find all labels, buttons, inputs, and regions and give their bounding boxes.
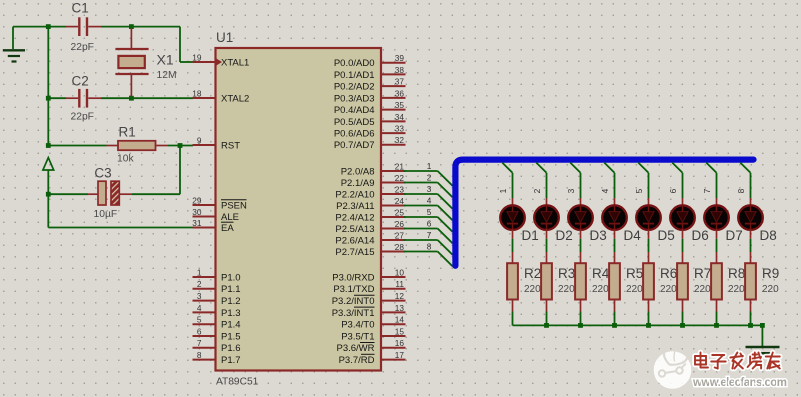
wire ground bus [513, 324, 763, 326]
svg-text:P0.7/AD7: P0.7/AD7 [334, 140, 375, 151]
svg-text:4: 4 [197, 303, 202, 313]
svg-text:P0.0/AD0: P0.0/AD0 [334, 58, 375, 69]
svg-text:19: 19 [192, 52, 202, 62]
svg-text:2: 2 [532, 188, 542, 193]
pin 9 RST [193, 135, 241, 151]
svg-text:10: 10 [395, 267, 405, 277]
svg-text:37: 37 [395, 77, 405, 87]
label R2 [524, 266, 541, 281]
svg-text:P3.2/INT0: P3.2/INT0 [332, 296, 375, 307]
svg-text:31: 31 [192, 218, 202, 228]
pin 34 P0.5/AD5 [334, 112, 406, 128]
svg-text:1: 1 [197, 267, 202, 277]
pin 10 P3.0/RXD [332, 267, 405, 283]
svg-text:XTAL2: XTAL2 [221, 93, 249, 104]
svg-text:P1.4: P1.4 [221, 320, 241, 331]
net label 4 (vertical) [600, 188, 610, 193]
svg-text:P2.1/A9: P2.1/A9 [341, 178, 375, 189]
wire D8-R9 [750, 239, 752, 252]
wire XTAL1 net [101, 27, 193, 62]
net label 2 (vertical) [532, 188, 542, 193]
wire bus to D5 [638, 163, 648, 198]
svg-text:1: 1 [498, 188, 508, 193]
value 220 R5 [626, 284, 643, 295]
net label 7 [427, 230, 432, 240]
svg-text:AT89C51: AT89C51 [216, 377, 259, 388]
capacitor C2 [66, 89, 101, 108]
wire C3-RST [132, 146, 180, 195]
svg-text:D8: D8 [760, 228, 777, 243]
junction RST riser [178, 143, 183, 148]
pin 11 P3.1/TXD [333, 279, 405, 295]
net label 5 (vertical) [634, 188, 644, 193]
pin 8 P1.7 [193, 350, 241, 366]
svg-text:12: 12 [395, 291, 405, 301]
value 12M [157, 70, 177, 81]
pin 28 P2.7/A15 [335, 242, 405, 258]
junction R9 gnd [748, 323, 753, 328]
svg-text:P3.5/T1: P3.5/T1 [341, 331, 374, 342]
svg-text:P2.5/A13: P2.5/A13 [335, 224, 374, 235]
wire R8 to ground bus [716, 312, 718, 326]
pin 13 P3.3/INT1 [332, 303, 406, 319]
svg-text:P3.0/RXD: P3.0/RXD [332, 272, 374, 283]
svg-text:D2: D2 [556, 228, 573, 243]
svg-text:R9: R9 [762, 266, 779, 281]
pin 16 P3.6/WR [336, 338, 405, 354]
pin marker XTAL1 chevron [217, 59, 223, 66]
svg-text:R2: R2 [524, 266, 541, 281]
svg-text:220: 220 [728, 284, 745, 295]
label R8 [728, 266, 745, 281]
net label 1 (vertical) [498, 188, 508, 193]
svg-text:25: 25 [395, 207, 405, 217]
label D5 [658, 228, 675, 243]
label D4 [624, 228, 642, 243]
junction R7 gnd [680, 323, 685, 328]
label C3 [94, 166, 111, 181]
svg-text:30: 30 [192, 207, 202, 217]
value 220 R6 [660, 284, 677, 295]
bus (blue) [455, 160, 753, 266]
svg-text:P1.0: P1.0 [221, 272, 241, 283]
svg-text:C2: C2 [72, 74, 89, 89]
LED D7 [704, 198, 729, 239]
svg-text:D5: D5 [658, 228, 675, 243]
label R1 [119, 125, 136, 140]
pin 32 P0.7/AD7 [334, 135, 406, 151]
net label 8 [427, 242, 432, 252]
svg-text:P2.6/A14: P2.6/A14 [335, 235, 374, 246]
wire P2.3 to bus [404, 206, 453, 221]
svg-text:10µF: 10µF [94, 209, 118, 220]
svg-text:P2.7/A15: P2.7/A15 [335, 247, 374, 258]
svg-text:2: 2 [427, 173, 432, 183]
svg-text:P0.3/AD3: P0.3/AD3 [334, 93, 375, 104]
resistor R5 [609, 252, 620, 312]
net label 5 [427, 207, 432, 217]
svg-text:U1: U1 [216, 30, 233, 45]
wire P2.4 to bus [404, 217, 453, 232]
label U1 [216, 30, 233, 45]
svg-text:D7: D7 [726, 228, 743, 243]
svg-text:C1: C1 [72, 1, 89, 16]
wire R5 to ground bus [614, 312, 616, 326]
junction R5 gnd [612, 323, 617, 328]
svg-text:5: 5 [197, 315, 202, 325]
pin 17 P3.7/RD [339, 350, 406, 366]
LED D8 [738, 198, 763, 239]
wire bus to D7 [706, 163, 716, 198]
label D2 [556, 228, 573, 243]
svg-text:1: 1 [427, 161, 432, 171]
svg-text:ALE: ALE [221, 212, 239, 223]
svg-text:P3.3/INT1: P3.3/INT1 [332, 308, 375, 319]
svg-text:P3.1/TXD: P3.1/TXD [333, 284, 374, 295]
watermark text elecfans CJK [695, 353, 780, 369]
svg-text:15: 15 [395, 326, 405, 336]
svg-text:39: 39 [395, 53, 405, 63]
pin 7 P1.6 [193, 338, 241, 354]
wire R6 to ground bus [648, 312, 650, 326]
svg-text:220: 220 [762, 284, 779, 295]
wire R4 to ground bus [580, 312, 582, 326]
svg-text:EA: EA [221, 223, 234, 234]
net label 3 [427, 184, 432, 194]
svg-text:X1: X1 [157, 52, 174, 68]
pin 24 P2.3/A11 [336, 196, 405, 212]
svg-text:9: 9 [197, 135, 202, 145]
label R4 [592, 266, 610, 281]
svg-text:C3: C3 [94, 166, 111, 181]
wire D7-R8 [716, 239, 718, 252]
label AT89C51 [216, 377, 259, 388]
junction X1 top [129, 24, 134, 29]
svg-text:P0.5/AD5: P0.5/AD5 [334, 117, 375, 128]
svg-text:6: 6 [197, 326, 202, 336]
svg-text:4: 4 [600, 188, 610, 193]
svg-text:27: 27 [395, 230, 405, 240]
value 22pF C2 [71, 112, 94, 123]
svg-text:P1.6: P1.6 [221, 343, 241, 354]
svg-text:23: 23 [395, 184, 405, 194]
svg-text:2: 2 [197, 279, 202, 289]
label D1 [522, 228, 539, 243]
svg-text:R1: R1 [119, 125, 136, 140]
value 220 R9 [762, 284, 779, 295]
svg-text:26: 26 [395, 219, 405, 229]
wire bus to D6 [672, 163, 682, 198]
svg-text:12M: 12M [157, 70, 177, 81]
crystal X1 [115, 28, 148, 97]
wire RST net [168, 145, 193, 147]
pin 4 P1.3 [193, 303, 241, 319]
svg-text:35: 35 [395, 100, 405, 110]
svg-text:34: 34 [395, 112, 405, 122]
junction GND-R1 [46, 143, 51, 148]
svg-text:14: 14 [395, 315, 405, 325]
resistor R8 [711, 252, 722, 312]
wire GND rail [13, 27, 107, 146]
svg-text:P3.4/T0: P3.4/T0 [341, 320, 374, 331]
wire D4-R5 [614, 239, 616, 252]
svg-text:32: 32 [395, 135, 405, 145]
svg-text:6: 6 [427, 219, 432, 229]
resistor R7 [677, 252, 688, 312]
ground (right) [746, 347, 780, 353]
pin 36 P0.3/AD3 [334, 88, 406, 104]
wire D2-R3 [546, 239, 548, 252]
pin 19 XTAL1 [192, 52, 249, 68]
svg-text:3: 3 [427, 184, 432, 194]
wire D6-R7 [682, 239, 684, 252]
pin 3 P1.2 [193, 291, 241, 307]
watermark url [692, 377, 787, 389]
label R3 [558, 266, 575, 281]
svg-text:D1: D1 [522, 228, 539, 243]
svg-text:38: 38 [395, 65, 405, 75]
svg-text:www.elecfans.com: www.elecfans.com [692, 377, 787, 389]
pin 35 P0.4/AD4 [334, 100, 406, 116]
value 220 R8 [728, 284, 745, 295]
junction R4 gnd [578, 323, 583, 328]
net label 1 [427, 161, 432, 171]
wire D1-R2 [512, 239, 514, 252]
svg-text:22pF: 22pF [71, 112, 94, 123]
svg-text:P1.2: P1.2 [221, 296, 241, 307]
value 220 R3 [558, 284, 575, 295]
pin 30 ALE [192, 207, 239, 223]
pin 31 EA [192, 218, 234, 234]
wire to ground [761, 325, 763, 346]
value 10k [117, 154, 134, 165]
svg-text:P3.7/RD: P3.7/RD [339, 355, 375, 366]
pin 21 P2.0/A8 [341, 161, 406, 177]
pin 37 P0.2/AD2 [334, 77, 406, 93]
svg-text:8: 8 [736, 188, 746, 193]
wire P2.2 to bus [404, 194, 453, 209]
LED D3 [568, 198, 593, 239]
pin 23 P2.2/A10 [335, 184, 405, 200]
svg-text:17: 17 [395, 350, 405, 360]
pin 15 P3.5/T1 [341, 326, 405, 342]
watermark logo [654, 344, 692, 389]
label D8 [760, 228, 777, 243]
svg-text:18: 18 [192, 88, 202, 98]
value 220 R2 [524, 284, 541, 295]
wire R7 to ground bus [682, 312, 684, 326]
resistor R6 [643, 252, 654, 312]
svg-text:3: 3 [566, 188, 576, 193]
pin 27 P2.6/A14 [335, 230, 405, 246]
svg-text:220: 220 [558, 284, 575, 295]
svg-text:22: 22 [395, 173, 405, 183]
svg-text:XTAL1: XTAL1 [221, 57, 249, 68]
pin 18 XTAL2 [192, 88, 249, 104]
svg-text:33: 33 [395, 123, 405, 133]
wire bus to D1 [502, 163, 512, 198]
label X1 [157, 52, 174, 68]
svg-text:3: 3 [197, 291, 202, 301]
svg-text:5: 5 [427, 207, 432, 217]
resistor R1 [107, 141, 169, 150]
resistor R4 [575, 252, 586, 312]
svg-text:22pF: 22pF [71, 42, 94, 53]
svg-text:P2.3/A11: P2.3/A11 [336, 201, 374, 212]
capacitor C3 [48, 181, 132, 205]
svg-text:8: 8 [197, 350, 202, 360]
svg-text:R7: R7 [694, 266, 711, 281]
label R7 [694, 266, 711, 281]
wire R9 to ground bus [750, 312, 752, 326]
svg-text:R4: R4 [592, 266, 610, 281]
svg-text:8: 8 [427, 242, 432, 252]
svg-text:P1.3: P1.3 [221, 308, 241, 319]
ground [3, 27, 25, 62]
label D6 [692, 228, 709, 243]
junction gnd corner [760, 323, 765, 328]
net label 4 [427, 196, 432, 206]
svg-text:7: 7 [427, 230, 432, 240]
svg-text:P1.7: P1.7 [221, 355, 241, 366]
svg-text:P0.2/AD2: P0.2/AD2 [334, 82, 375, 93]
net label 7 (vertical) [702, 188, 712, 193]
wire P2.6 to bus [404, 240, 453, 255]
label R6 [660, 266, 677, 281]
capacitor C1 [66, 17, 101, 36]
pin 2 P1.1 [193, 279, 241, 295]
label R9 [762, 266, 779, 281]
net label 6 [427, 219, 432, 229]
junction GND-C1 [46, 24, 51, 29]
svg-text:P2.2/A10: P2.2/A10 [335, 189, 374, 200]
svg-text:D3: D3 [590, 228, 607, 243]
value 22pF C1 [71, 42, 94, 53]
svg-text:P0.4/AD4: P0.4/AD4 [334, 105, 375, 116]
pin 26 P2.5/A13 [335, 219, 405, 235]
wire P2.1 to bus [404, 183, 453, 198]
wire bus to D3 [570, 163, 580, 198]
svg-text:D4: D4 [624, 228, 642, 243]
svg-text:P2.4/A12: P2.4/A12 [335, 212, 374, 223]
wire XTAL2 net [101, 97, 193, 99]
label R5 [626, 266, 643, 281]
power VCC arrow [43, 158, 54, 228]
wire P2.0 to bus [404, 171, 453, 186]
svg-text:R5: R5 [626, 266, 643, 281]
svg-text:220: 220 [524, 284, 541, 295]
svg-text:P0.1/AD1: P0.1/AD1 [334, 70, 375, 81]
svg-text:10k: 10k [117, 154, 134, 165]
svg-text:P1.1: P1.1 [221, 284, 241, 295]
svg-text:28: 28 [395, 242, 405, 252]
pin 29 PSEN [192, 195, 247, 211]
wire D3-R4 [580, 239, 582, 252]
svg-text:24: 24 [395, 196, 405, 206]
junction VCC-C3 [46, 192, 51, 197]
op-chip U1 body AT89C51 [216, 48, 382, 371]
resistor R3 [541, 252, 552, 312]
value 220 R7 [694, 284, 711, 295]
svg-text:7: 7 [702, 188, 712, 193]
wire D5-R6 [648, 239, 650, 252]
pin 12 P3.2/INT0 [332, 291, 406, 307]
LED D1 [500, 198, 525, 239]
LED D5 [636, 198, 661, 239]
resistor R9 [745, 252, 756, 312]
wire bus to D8 [740, 163, 750, 198]
svg-text:R8: R8 [728, 266, 745, 281]
value 10uF [94, 209, 118, 220]
label C2 [72, 74, 89, 89]
pin 14 P3.4/T0 [341, 315, 405, 331]
pin 22 P2.1/A9 [341, 173, 406, 189]
resistor R2 [507, 252, 518, 312]
pin 33 P0.6/AD6 [334, 123, 406, 139]
wire R3 to ground bus [546, 312, 548, 326]
junction GND-C2 [46, 96, 51, 101]
pin 1 P1.0 [193, 267, 241, 283]
svg-text:4: 4 [427, 196, 432, 206]
pin 5 P1.4 [193, 315, 241, 331]
LED D2 [534, 198, 559, 239]
svg-text:36: 36 [395, 88, 405, 98]
pin 6 P1.5 [193, 326, 241, 342]
wire bus to D2 [536, 163, 546, 198]
svg-text:7: 7 [197, 338, 202, 348]
net label 2 [427, 173, 432, 183]
wire bus to D4 [604, 163, 614, 198]
svg-text:29: 29 [192, 195, 202, 205]
label D3 [590, 228, 607, 243]
pin 39 P0.0/AD0 [334, 53, 406, 69]
label C1 [72, 1, 89, 16]
svg-text:5: 5 [634, 188, 644, 193]
svg-text:13: 13 [395, 303, 405, 313]
svg-text:P3.6/WR: P3.6/WR [336, 343, 374, 354]
svg-text:P2.0/A8: P2.0/A8 [341, 166, 375, 177]
svg-text:P1.5: P1.5 [221, 331, 241, 342]
wire R2 to ground bus [512, 312, 514, 326]
svg-text:P0.6/AD6: P0.6/AD6 [334, 128, 375, 139]
label D7 [726, 228, 743, 243]
svg-text:11: 11 [395, 279, 404, 289]
svg-text:220: 220 [592, 284, 609, 295]
net label 8 (vertical) [736, 188, 746, 193]
pin 25 P2.4/A12 [335, 207, 405, 223]
svg-text:RST: RST [221, 140, 240, 151]
svg-text:21: 21 [395, 161, 405, 171]
junction X1 bottom [129, 96, 134, 101]
svg-text:D6: D6 [692, 228, 709, 243]
LED D6 [670, 198, 695, 239]
wire P2.5 to bus [404, 229, 453, 244]
wire P2.7 to bus [404, 252, 453, 267]
junction R3 gnd [544, 323, 549, 328]
svg-text:6: 6 [668, 188, 678, 193]
svg-text:R6: R6 [660, 266, 677, 281]
svg-text:220: 220 [660, 284, 677, 295]
value 220 R4 [592, 284, 609, 295]
pin 38 P0.1/AD1 [334, 65, 406, 81]
net label 3 (vertical) [566, 188, 576, 193]
svg-text:16: 16 [395, 338, 405, 348]
junction R6 gnd [646, 323, 651, 328]
svg-text:220: 220 [626, 284, 643, 295]
wire EA net [48, 227, 193, 229]
net label 6 (vertical) [668, 188, 678, 193]
LED D4 [602, 198, 627, 239]
